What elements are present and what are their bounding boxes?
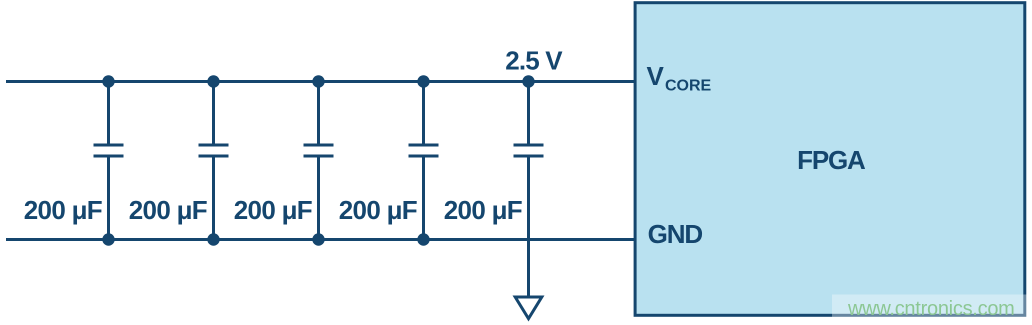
svg-text:2.5 V: 2.5 V <box>505 46 563 76</box>
svg-text:200 μF: 200 μF <box>129 195 207 225</box>
svg-text:200 μF: 200 μF <box>24 195 102 225</box>
svg-text:200 μF: 200 μF <box>444 195 522 225</box>
svg-text:CORE: CORE <box>665 78 712 95</box>
svg-text:200 μF: 200 μF <box>339 195 417 225</box>
svg-text:www.cntronics.com: www.cntronics.com <box>847 298 1015 320</box>
svg-text:200 μF: 200 μF <box>234 195 312 225</box>
svg-text:V: V <box>647 61 665 91</box>
svg-text:FPGA: FPGA <box>797 145 866 175</box>
svg-text:GND: GND <box>648 219 703 249</box>
